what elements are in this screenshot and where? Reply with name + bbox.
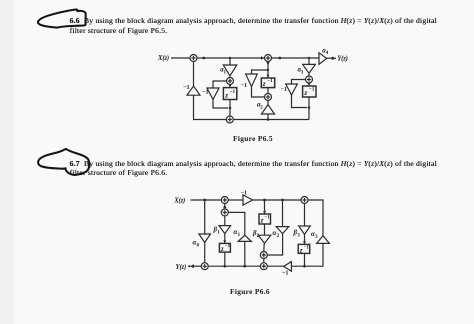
wire X node down to amp alpha0 [204, 200, 206, 234]
node X(z) input label fig2 [173, 197, 185, 204]
svg-text:3: 3 [301, 71, 304, 76]
svg-text:X(z): X(z) [173, 197, 185, 204]
wire beta2 to summer S5 [263, 243, 265, 252]
delay E2 z^-1 fig2 [259, 211, 271, 224]
wire D1 down to summer B1 [229, 100, 231, 116]
svg-text:Y(z): Y(z) [176, 264, 187, 271]
wire E1 down to bottom row [224, 252, 227, 267]
svg-text:z: z [220, 246, 224, 253]
wire summer C3 to delay D3 [308, 83, 310, 86]
amplifier a1 [220, 65, 237, 76]
summer S5 fig2 [260, 252, 267, 259]
svg-text:z: z [224, 90, 228, 99]
wire sum A1 down to amp -1 left [193, 61, 195, 86]
amplifier -1 section2 [241, 74, 258, 89]
wire top row down to delay E2 [264, 200, 266, 214]
summer C2 [265, 94, 272, 101]
summer C3 [306, 76, 313, 83]
wire S4 right to alpha1 riser [228, 212, 245, 235]
svg-text:−1: −1 [202, 89, 209, 96]
pen mark loop around 6.6 [38, 10, 86, 28]
svg-text:z: z [303, 88, 307, 97]
wire a4 to output [327, 57, 336, 60]
svg-text:3: 3 [297, 233, 300, 238]
amplifier beta3 [293, 226, 311, 238]
wire alpha2 to summer S5 [267, 234, 283, 255]
wire E2 to amp beta2 [264, 224, 266, 235]
wire sum A2 down to delay D2 [266, 61, 269, 78]
svg-text:−1: −1 [281, 86, 288, 93]
wire beta3 to delay E3 [304, 234, 306, 244]
svg-text:−1: −1 [230, 89, 236, 95]
svg-text:3: 3 [315, 235, 318, 240]
wire loop C3 to -1 amp section3 [292, 80, 306, 85]
amplifier alpha2 [273, 227, 289, 239]
caption Figure P6.6 [230, 287, 270, 296]
amplifier -1 bottom fig2 [282, 262, 292, 277]
wire a3 to summer C3 [308, 73, 310, 76]
wire bottom row S6 to S3 [208, 265, 261, 267]
wire -1 left down to bottom row [194, 95, 227, 119]
svg-text:1: 1 [238, 233, 241, 238]
summer B1 bottom [226, 116, 233, 123]
wire a2 down to bottom row [267, 114, 269, 120]
amplifier -1 section3 [281, 84, 298, 95]
wire top row down to amp alpha2 [282, 200, 284, 227]
wire loop A2 to -1 amp section2 [252, 70, 269, 74]
summer S4 fig2 [221, 209, 228, 216]
summer A2 [265, 55, 272, 62]
wire -1 section1 to node below D1 [213, 99, 231, 109]
svg-text:4: 4 [326, 51, 329, 56]
svg-text:−1: −1 [241, 82, 248, 89]
wire -1 bottom to summer S6 [267, 265, 284, 267]
wire S4 to amp beta1 [224, 216, 226, 226]
wire top row sum A1 to sum A2 [197, 56, 264, 60]
wire -1 top to sum S2 fig2 [253, 199, 301, 202]
amplifier a4 [319, 47, 329, 64]
svg-text:X(z): X(z) [157, 55, 169, 62]
svg-text:z: z [262, 79, 266, 88]
wire S5 to summer S6 [263, 258, 265, 263]
amplifier alpha0 [193, 234, 211, 248]
summer C1 [227, 78, 234, 85]
svg-text:−1: −1 [241, 190, 248, 197]
delay D3 z^-1 [303, 83, 316, 97]
amplifier -1 section1 [202, 88, 219, 99]
delay E1 z^-1 fig2 [219, 240, 230, 253]
caption Figure P6.5 [233, 134, 273, 143]
wire D3 down to bottom row corner [308, 97, 310, 120]
wire -1 section3 to node below D3 [292, 95, 311, 109]
svg-text:−1: −1 [282, 269, 289, 276]
summer S6 fig2 [260, 263, 267, 270]
wire S2 to right riser fig2 [308, 200, 323, 236]
summer S2 fig2 [301, 197, 308, 204]
svg-text:−1: −1 [267, 78, 273, 84]
node X(z) input label [157, 55, 169, 62]
node Y(z) output label fig2 [176, 264, 187, 271]
pen mark loop around 6.7 [38, 149, 89, 175]
svg-text:z: z [299, 247, 303, 254]
svg-text:1: 1 [224, 71, 227, 76]
wire S1 down to summer S4 [223, 203, 226, 209]
wire -1 section2 to summer C2 [252, 87, 265, 97]
wire input to sum S1 fig2 [191, 199, 222, 202]
delay D2 z^-1 [261, 75, 274, 88]
wire loop C1 to -1 amp section1 [213, 81, 227, 88]
wire alpha3 down to bottom corner [291, 243, 323, 266]
left scan strip [0, 0, 14, 324]
summer A1 [190, 55, 197, 62]
wire beta1 to delay E1 [224, 234, 226, 244]
wire summer C1 to delay D1 [229, 85, 231, 88]
svg-text:−1: −1 [309, 87, 315, 93]
problem 6.7 text [70, 159, 450, 178]
svg-text:0: 0 [197, 243, 200, 248]
wire top row down to amp a1 [229, 58, 231, 65]
amplifier a2 [257, 102, 275, 115]
wire bottom row to section3 riser [234, 118, 310, 121]
svg-text:2: 2 [260, 106, 263, 111]
amplifier beta1 [213, 226, 231, 236]
svg-text:−1: −1 [225, 244, 231, 249]
wire a1 to summer C1 [229, 76, 231, 78]
wire alpha1 down to bottom row [244, 241, 247, 267]
delay E3 z^-1 fig2 [298, 241, 310, 254]
wire top row sum A2 to amp a4 [271, 57, 319, 60]
svg-text:Y(z): Y(z) [337, 56, 348, 63]
amplifier a3 [298, 64, 316, 75]
amplifier -1 top fig2 [241, 190, 253, 206]
svg-text:−1: −1 [183, 84, 190, 91]
amplifier beta2 [252, 230, 271, 243]
amplifier alpha1 [234, 229, 252, 241]
wire summer S3 to Y output arrow [188, 264, 201, 268]
wire top row down to amp a3 [308, 58, 310, 64]
wire input to sum A1 [171, 57, 190, 59]
svg-text:2: 2 [277, 234, 280, 239]
amplifier -1 left feedback [183, 84, 200, 95]
delay D1 z^-1 [223, 84, 236, 99]
summer S3 output sum fig2 [201, 263, 208, 270]
wire S1 to amp -1 top [228, 199, 243, 201]
wire S2 down to amp beta3 [304, 204, 306, 226]
problem 6.6 text [70, 16, 450, 35]
svg-text:−1: −1 [265, 216, 271, 221]
wire D2 to summer C2 [267, 88, 269, 94]
summer S1 fig2 [221, 197, 228, 204]
wire summer C2 to amp a2 [267, 100, 269, 104]
svg-text:z: z [260, 217, 264, 224]
amplifier alpha3 [311, 231, 329, 243]
node Y(z) output label [337, 56, 348, 63]
svg-text:−1: −1 [304, 246, 310, 251]
svg-text:1: 1 [217, 230, 220, 235]
wire E3 down to bottom row [303, 253, 306, 267]
wire alpha0 to summer S3 [204, 242, 206, 263]
